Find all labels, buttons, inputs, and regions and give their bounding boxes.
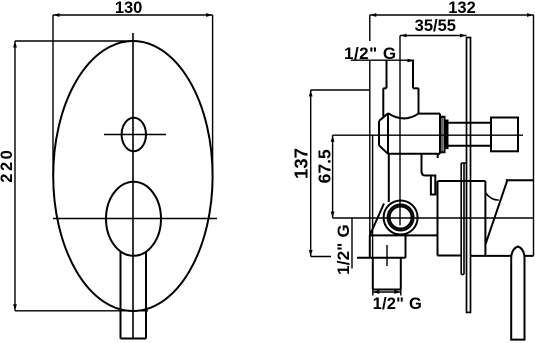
svg-text:35/55: 35/55: [415, 17, 456, 35]
svg-text:1/2" G: 1/2" G: [344, 44, 397, 63]
arrow 35/55 left: [400, 34, 407, 38]
side view: outlet center tick: [386, 245, 388, 266]
side view: cartridge cap left edge: [378, 121, 380, 145]
dim 220 bottom extension: [15, 310, 148, 312]
front view: lever handle right edge: [145, 252, 147, 339]
side view: base top edge line: [438, 179, 534, 182]
side view: top inlet pipe right wall: [412, 60, 414, 88]
arrow 67.5 bottom: [331, 212, 335, 219]
side view: cartridge cap right edge: [387, 113, 389, 154]
side view: cartridge body top edge with dip: [388, 113, 440, 118]
dim 132 line: [370, 14, 534, 16]
side view: cartridge body right edge: [439, 114, 441, 154]
side view: lever neck diagonal: [486, 179, 508, 244]
side view: outlet boss right wall: [405, 235, 407, 257]
arrow 220 bottom: [13, 304, 17, 311]
port center line / 67.5 bottom extension: [333, 217, 534, 219]
side view: top inlet pipe 1/2G left wall: [386, 60, 388, 88]
front view: hub crosshair horizontal: [53, 218, 217, 220]
side view: bottom outlet pipe left wall: [372, 258, 374, 290]
dim 130 right extension: [212, 15, 214, 176]
side view: side port bore circle: [390, 207, 412, 229]
dim 132 back plate inner line: [372, 135, 374, 258]
side view: gusset diagonal: [370, 204, 384, 236]
side view: pipe step right ledge: [413, 87, 419, 89]
front view: diverter crosshair horizontal: [104, 134, 166, 136]
svg-text:132: 132: [448, 0, 476, 17]
dim 132 left extension: [369, 15, 371, 258]
dim 137 top extension: [311, 89, 370, 91]
front view: oval escutcheon plate: [53, 41, 212, 311]
svg-text:67.5: 67.5: [315, 149, 335, 183]
dim 130 line: [53, 14, 213, 16]
arrow 220 top: [13, 41, 17, 48]
side view: base bottom edge segments: [438, 255, 534, 257]
side view: spindle top edge: [448, 122, 492, 124]
side view: outlet boss left wall: [369, 235, 371, 257]
front view: lever handle bottom cap: [121, 338, 147, 340]
side view: cartridge retainer step: [422, 154, 431, 176]
arrow 137 bottom: [309, 250, 313, 257]
dim 130 left extension: [52, 15, 54, 176]
side view: back gasket strip: [461, 163, 466, 274]
side view: retainer clip tab: [431, 176, 435, 195]
arrow bottom 1/2G right: [394, 290, 401, 294]
dim bottom 1/2G line: [373, 291, 401, 293]
side view: handle base front edge: [484, 181, 486, 256]
side view: lever pivot arc: [485, 193, 498, 200]
arrow bottom 1/2G left: [373, 290, 380, 294]
arrow 132 left: [370, 13, 377, 17]
side view: body left column edge: [388, 154, 390, 202]
side view: handle hub knob: [491, 118, 518, 152]
side view: outlet boss bottom edge: [357, 257, 406, 259]
side view: knurled ring 1: [440, 117, 445, 153]
side view: knurled ring 2: [445, 121, 448, 149]
svg-text:130: 130: [115, 0, 143, 17]
side view: cartridge cap top slant: [379, 113, 388, 121]
side view: bottom outlet pipe right wall: [400, 258, 402, 290]
side view: body right step edge: [437, 154, 439, 158]
arrow 67.5 top: [331, 135, 335, 142]
arrow 137 top: [309, 90, 313, 97]
side view: bottom outlet pipe end cap: [373, 289, 401, 291]
side view: upper boss left wall: [382, 88, 384, 117]
side view: side port outer circle 1/2G: [384, 201, 418, 235]
side view: body right block edge: [437, 181, 439, 256]
side view: side port thread circle: [388, 205, 414, 231]
arrow top leader: [407, 59, 414, 63]
side view: wall mounting plate: [467, 38, 471, 313]
front view: lever hub circle: [106, 182, 161, 256]
front view: lever handle left edge: [120, 252, 122, 339]
leader line top 1/2G: [351, 59, 414, 61]
side view: spindle bottom edge: [448, 145, 492, 147]
dim 67.5 line: [332, 135, 334, 218]
side view: cartridge cap bottom slant: [379, 145, 388, 154]
svg-text:1/2" G: 1/2" G: [334, 224, 353, 275]
svg-text:220: 220: [0, 148, 16, 183]
arrow 130 left: [53, 13, 60, 17]
side view: lever grip outline: [511, 247, 524, 340]
side view: ring 2 knurl line: [445, 121, 447, 149]
dim 137 bottom extension: [311, 256, 331, 258]
dim 35/55 line: [400, 35, 467, 37]
side view: cartridge body bottom edge: [388, 153, 440, 155]
leader line rotated 1/2G: [351, 218, 353, 269]
arrow 132 right: [527, 13, 534, 17]
side view: pipe step left ledge: [383, 87, 386, 89]
side view: upper boss right wall: [418, 88, 420, 113]
dim 220 top extension: [15, 40, 135, 42]
side view: ring 1 knurl lines: [441, 117, 443, 153]
side view: body bottom edge: [370, 234, 438, 236]
front view: diverter knob small ellipse: [122, 118, 146, 151]
front view: vertical center line: [132, 33, 134, 339]
dim bottom 1/2G right extension: [400, 290, 402, 296]
dim 137 line: [310, 90, 312, 257]
svg-text:137: 137: [291, 148, 312, 179]
dim bottom 1/2G left extension: [372, 290, 374, 296]
dim 132 right extension: [533, 15, 535, 256]
arrow 130 right: [206, 13, 213, 17]
pipe center line / 35-55 left extension: [399, 36, 401, 226]
cartridge center line / 67.5 top extension: [333, 134, 523, 136]
dim 220 line: [14, 41, 16, 311]
svg-text:1/2" G: 1/2" G: [373, 295, 422, 313]
arrow 35/55 right: [460, 34, 467, 38]
